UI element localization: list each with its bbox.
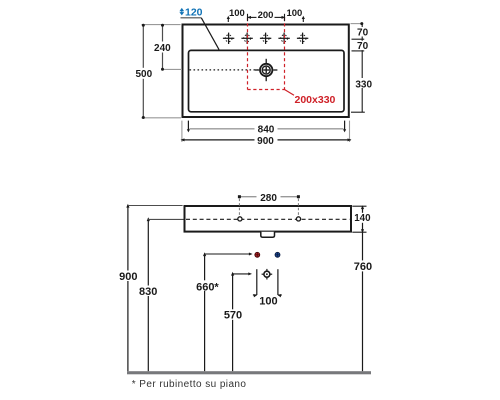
label 120 (depth)	[185, 7, 203, 19]
top dimension 200	[247, 10, 286, 21]
red dashed cutout 200x330	[248, 18, 285, 90]
svg-text:900: 900	[119, 271, 137, 283]
dimension 240	[153, 24, 173, 71]
svg-text:500: 500	[135, 69, 152, 80]
fixing hole right	[296, 217, 300, 221]
cold water supply (blue)	[275, 252, 280, 257]
label 70 upper	[355, 27, 371, 39]
dimension 900 (top view)	[181, 121, 352, 147]
dotted centre line to drain	[190, 69, 259, 71]
front view: body rectangle	[185, 206, 352, 232]
svg-text:* Per rubinetto su piano: * Per rubinetto su piano	[132, 379, 247, 390]
dimension 830	[138, 217, 184, 371]
svg-text:70: 70	[357, 28, 369, 39]
faucet hole cross 1	[223, 33, 234, 44]
svg-text:200: 200	[258, 10, 274, 21]
footnote	[132, 379, 247, 390]
right extension + dimension line 70/70/330	[351, 22, 365, 112]
top view: outer rim rectangle 900x500	[183, 25, 349, 118]
top dimension 100 left	[227, 8, 245, 22]
leader underline for 120	[181, 17, 202, 19]
hot water supply (red)	[255, 252, 260, 257]
blue depth arrow symbol	[179, 8, 184, 15]
svg-text:660*: 660*	[196, 281, 219, 293]
faucet hole cross 3	[260, 33, 271, 44]
front view: fixing holes dashed axis	[186, 218, 350, 220]
svg-text:100: 100	[259, 296, 277, 308]
floor line	[127, 371, 371, 374]
svg-text:330: 330	[355, 79, 372, 90]
waste outlet symbol (front view)	[262, 269, 273, 280]
faucet hole cross 5	[297, 33, 308, 44]
dimension 570	[222, 272, 252, 371]
left extension lines	[142, 25, 183, 118]
label 330	[355, 78, 373, 90]
svg-text:830: 830	[139, 286, 157, 298]
top view: inner basin rectangle	[189, 50, 345, 111]
svg-text:840: 840	[258, 125, 275, 136]
svg-text:570: 570	[224, 310, 242, 322]
svg-text:100: 100	[286, 8, 302, 19]
red leader line	[285, 90, 295, 96]
fixing hole left	[238, 217, 242, 221]
dimension 500	[134, 24, 154, 119]
top dimension 100 right	[286, 8, 304, 22]
dimension 760	[353, 232, 373, 371]
svg-text:120: 120	[185, 7, 203, 19]
svg-text:240: 240	[154, 43, 171, 54]
dimension 140	[352, 205, 372, 233]
svg-text:760: 760	[354, 261, 372, 273]
label 200x330	[295, 94, 336, 106]
dimension 660*	[195, 252, 253, 371]
overflow notch	[261, 232, 275, 237]
dimension 840	[187, 121, 346, 136]
dimension 100 (bottom)	[253, 269, 282, 307]
svg-text:140: 140	[354, 213, 371, 224]
svg-text:200x330: 200x330	[295, 94, 336, 106]
svg-text:70: 70	[357, 41, 369, 52]
leader diagonal for 120	[201, 18, 219, 50]
svg-text:900: 900	[257, 136, 274, 147]
svg-text:100: 100	[229, 8, 245, 19]
label 70 lower	[355, 41, 371, 52]
dimension 280	[238, 192, 300, 216]
drain symbol top view	[255, 59, 277, 81]
dimension 900 (height)	[117, 204, 183, 371]
faucet hole cross 2	[241, 33, 252, 44]
faucet hole cross 4	[278, 33, 289, 44]
svg-text:280: 280	[260, 193, 277, 204]
